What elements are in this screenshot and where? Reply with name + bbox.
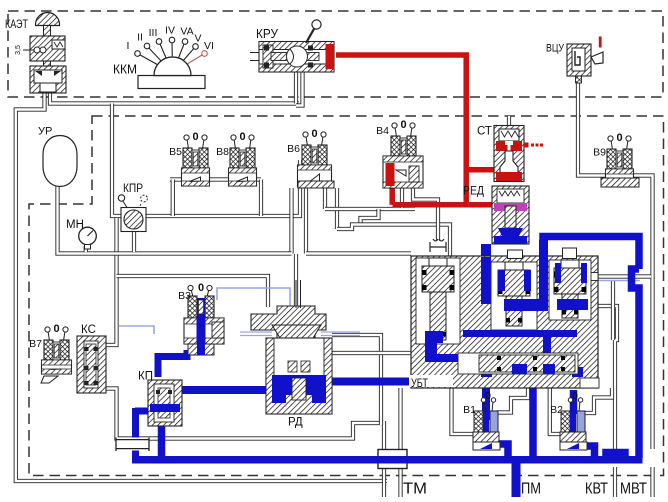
KKM handle position I (127, 40, 173, 73)
UBT piston 1 (422, 258, 454, 340)
wire ST vent (507, 116, 511, 126)
solenoid valve B3 (184, 282, 224, 355)
svg-text:В5: В5 (169, 146, 182, 158)
wire KAET drain to TM (16, 90, 387, 481)
KKM handle position II (137, 32, 172, 74)
wire UBT to B1 right (496, 388, 528, 413)
wire KAET supply to ring (50, 93, 299, 104)
solenoid valve B9 (606, 132, 634, 187)
valve KP (148, 380, 182, 426)
svg-text:0: 0 (53, 323, 59, 335)
solenoid valve B4 (383, 119, 423, 188)
wire KRU stub right (296, 72, 303, 106)
svg-text:РЕД: РЕД (463, 186, 484, 198)
svg-text:МН: МН (66, 219, 84, 231)
wire UBT left piston drop blue (426, 345, 434, 384)
wire V9 to MVT upper (633, 176, 653, 450)
wire MN stub (84, 246, 88, 252)
UBT piston 2 (498, 262, 530, 326)
svg-text:0: 0 (616, 132, 622, 144)
valve KRU body (250, 42, 334, 73)
regulator RD (240, 280, 360, 414)
wire KRU to RED red main (336, 55, 466, 205)
wire right circuit jog blue (632, 269, 640, 458)
wire main blue bus (132, 456, 643, 464)
wire UBT to B2 right (584, 388, 612, 413)
wire KRU stub left (294, 72, 298, 104)
wire feed line to UBT (306, 251, 411, 255)
wire V4 drop (400, 188, 404, 208)
B6 foot plate (298, 181, 334, 188)
UBT top clamp symbol (430, 239, 446, 252)
wire KVT upper (611, 281, 615, 340)
pressure gauge MN (79, 227, 97, 249)
svg-text:КРУ: КРУ (256, 26, 279, 41)
wire RD to UBT blue (332, 378, 430, 386)
wire KP left drop blue (132, 408, 139, 458)
svg-text:0: 0 (572, 390, 578, 402)
svg-text:ПМ: ПМ (521, 481, 541, 498)
wire KVT pipe lower (613, 467, 617, 497)
UBT label background (409, 375, 453, 387)
wire TM pipe upper left (382, 421, 386, 450)
wire UR feed line (58, 184, 292, 254)
svg-text:0: 0 (311, 128, 317, 140)
KRU lever (306, 20, 321, 43)
wire B1 out blue (490, 444, 508, 459)
VCU lever flag (591, 52, 603, 64)
wire V6 pipe outer left (289, 188, 293, 254)
wire V4 to UBT clamp (413, 188, 438, 241)
svg-text:МВТ: МВТ (620, 481, 647, 498)
wire UBT to PM blue (529, 378, 537, 460)
control line (light blue) UBT to blue circuit (589, 280, 640, 282)
valve KS (77, 336, 106, 393)
svg-text:СТ: СТ (477, 126, 492, 138)
wire KS to TM line (100, 389, 384, 439)
B7 foot (41, 376, 58, 383)
svg-text:В3: В3 (178, 290, 191, 302)
UBT right edge ports (588, 273, 598, 281)
svg-text:0: 0 (192, 131, 198, 143)
wire TM pipe upper right (398, 388, 402, 450)
UBT piston 3 bolt head (563, 248, 577, 259)
svg-text:0: 0 (198, 282, 204, 294)
solenoid valve B2 (560, 390, 587, 450)
wire RD stem (294, 254, 298, 307)
wire VCU to V9 (578, 83, 607, 176)
svg-text:III: III (149, 27, 158, 39)
wire V6 pipe inner right (323, 188, 327, 209)
reservoir UR (43, 136, 77, 187)
solenoid valve B1 (473, 390, 500, 450)
KRU red outlet block (326, 44, 335, 69)
svg-text:В7: В7 (29, 338, 42, 350)
wire UBT port to MVT line (589, 274, 651, 278)
KKM handle position VI (173, 40, 214, 73)
wire V5-V8 side channel (170, 177, 261, 181)
svg-text:УБТ: УБТ (411, 378, 428, 390)
svg-text:3,5: 3,5 (15, 45, 22, 55)
svg-text:В6: В6 (287, 143, 300, 155)
svg-text:В8: В8 (216, 146, 229, 158)
wire UBT to B1 blue (482, 370, 490, 420)
svg-text:ВЦУ: ВЦУ (546, 43, 565, 55)
UBT piston well 1 (416, 258, 460, 344)
control line B3 to RD (light blue) (217, 288, 290, 334)
svg-text:В4: В4 (376, 125, 389, 137)
wire UBT port to KVT (581, 306, 617, 449)
solenoid valve B6 (298, 128, 332, 187)
svg-text:В2: В2 (550, 404, 563, 416)
KKM handle position IV (165, 25, 175, 74)
KAET release lever (15, 45, 46, 55)
valve KPR (118, 195, 147, 232)
svg-text:V: V (194, 33, 201, 45)
wire UBT to right circuit blue (543, 237, 639, 311)
VCU red indicator (599, 37, 602, 48)
controller KKM base (138, 57, 205, 88)
wire B4 red drop (389, 183, 395, 205)
wire staircase jog (361, 209, 379, 225)
solenoid valve B8 (229, 131, 257, 186)
KKM handle position V (173, 33, 202, 74)
svg-text:ККМ: ККМ (113, 62, 137, 77)
UBT piston well 2 (491, 262, 537, 330)
wire KP left port blue (135, 408, 148, 415)
valve ST (stop signal) (494, 126, 524, 182)
UBT piston 2 bolt head (508, 250, 523, 259)
svg-text:КАЭТ: КАЭТ (5, 17, 29, 31)
wire V6 pipe outer right (335, 188, 339, 229)
wire PM drop blue (512, 461, 521, 497)
TM crossing bridge (378, 450, 407, 469)
wire channel to UBT top (337, 225, 450, 257)
valve KAET body (30, 13, 66, 94)
svg-text:УР: УР (38, 126, 52, 138)
wire V4 bottom channel (325, 207, 415, 211)
svg-text:КВТ: КВТ (585, 481, 608, 498)
wire RD right to TM (332, 335, 381, 425)
gray pipe bridge over KP blue drop (116, 438, 149, 452)
UBT horizontal spool (458, 353, 578, 374)
KKM dome (154, 57, 191, 75)
wire B3 to KP blue (158, 350, 187, 377)
main dashed frame (29, 116, 664, 476)
wire RED to UBT blue (481, 244, 491, 260)
svg-text:КС: КС (81, 324, 96, 336)
KKM handle position III (149, 27, 173, 73)
wire ring left side (112, 104, 122, 217)
wire red branch to ST (466, 167, 494, 173)
UBT piston well 3 (549, 260, 591, 320)
wire MVT pipe lower (650, 467, 654, 497)
B9 foot plate (601, 178, 639, 187)
pressure reducer RED (492, 186, 529, 244)
wire TM pipe lower left (382, 468, 386, 497)
wire channel left drop (171, 180, 175, 217)
ST red contact dots (524, 143, 529, 148)
wire ring bottom to V6 (145, 160, 300, 216)
svg-text:0: 0 (485, 390, 491, 402)
wire channel right drop (259, 180, 263, 217)
control line B3 left (light blue) (119, 326, 154, 334)
valve VCU body (567, 44, 591, 83)
svg-text:РД: РД (288, 417, 303, 429)
svg-text:В1: В1 (463, 404, 476, 416)
cab dashed frame (8, 11, 663, 97)
wire blue bus notch over KVT (606, 453, 625, 460)
wire UBT to B2 left (550, 388, 561, 434)
KKM handle position VA (173, 26, 194, 74)
svg-text:КПР: КПР (123, 183, 143, 195)
brake unit UBT block (411, 256, 598, 388)
wire UBT to B2 blue (570, 390, 578, 414)
svg-text:II: II (137, 32, 143, 44)
wire ring to KS feed (105, 218, 117, 345)
wire B3 loop to RD (117, 276, 269, 307)
UBT blue channels (425, 240, 588, 377)
wire TM pipe lower right (398, 468, 402, 497)
wire KP drop blue (158, 424, 166, 463)
wire RD right to UBT spool (332, 351, 414, 355)
svg-text:VI: VI (204, 40, 214, 52)
wire red branch to RED (469, 202, 496, 208)
UBT piston 3 (554, 260, 586, 318)
solenoid valve B7 (42, 323, 72, 374)
svg-text:КП: КП (138, 371, 153, 383)
UBT bottom right port (580, 378, 599, 388)
svg-text:I: I (127, 40, 130, 52)
svg-text:В9: В9 (593, 147, 606, 159)
svg-text:IV: IV (165, 25, 175, 37)
svg-text:0: 0 (400, 119, 406, 131)
solenoid valve B5 (182, 131, 210, 186)
svg-text:ТМ: ТМ (403, 481, 427, 498)
wire V6 pipe inner left (304, 188, 308, 254)
wire UBT to B1 left (452, 388, 474, 434)
svg-text:VA: VA (180, 26, 193, 38)
wire KP to RD blue (182, 386, 266, 394)
wire KPR stub (132, 231, 136, 252)
svg-text:0: 0 (239, 131, 245, 143)
wire B2 out blue (577, 446, 595, 459)
